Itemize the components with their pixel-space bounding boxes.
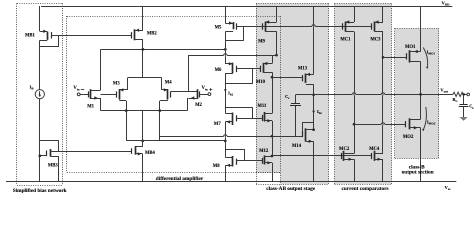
svg-text:Vin: Vin	[73, 86, 79, 91]
svg-text:M14: M14	[292, 144, 302, 149]
svg-text:MO1: MO1	[405, 45, 416, 50]
svg-text:MB2: MB2	[147, 32, 158, 37]
svg-text:M2: M2	[195, 103, 202, 108]
svg-text:M13: M13	[298, 66, 308, 71]
svg-text:MC2: MC2	[339, 147, 350, 152]
svg-text:M12: M12	[259, 149, 269, 154]
svg-text:M5: M5	[215, 26, 222, 31]
svg-text:M9: M9	[258, 40, 265, 45]
svg-text:MC3: MC3	[370, 38, 381, 43]
svg-text:MO2: MO2	[403, 135, 414, 140]
svg-text:Simplified bias network: Simplified bias network	[13, 188, 67, 194]
svg-text:MB3: MB3	[48, 163, 59, 168]
svg-text:M1: M1	[87, 105, 94, 110]
svg-text:M6: M6	[215, 68, 222, 73]
svg-text:M8: M8	[213, 164, 220, 169]
svg-text:MB4: MB4	[145, 151, 156, 156]
svg-text:M4: M4	[165, 81, 172, 86]
svg-text:differential amplifier: differential amplifier	[156, 176, 204, 182]
svg-text:class-AB output stage: class-AB output stage	[266, 186, 316, 192]
svg-text:M7: M7	[214, 122, 221, 127]
svg-text:MC1: MC1	[340, 38, 351, 43]
svg-text:M11: M11	[257, 104, 267, 109]
svg-text:Vin: Vin	[201, 86, 207, 91]
svg-text:MC4: MC4	[369, 147, 380, 152]
svg-text:M3: M3	[113, 81, 120, 86]
svg-text:MB1: MB1	[25, 33, 36, 38]
svg-text:current comparators: current comparators	[341, 186, 388, 192]
svg-text:output section: output section	[402, 170, 434, 176]
svg-text:M10: M10	[256, 80, 266, 85]
